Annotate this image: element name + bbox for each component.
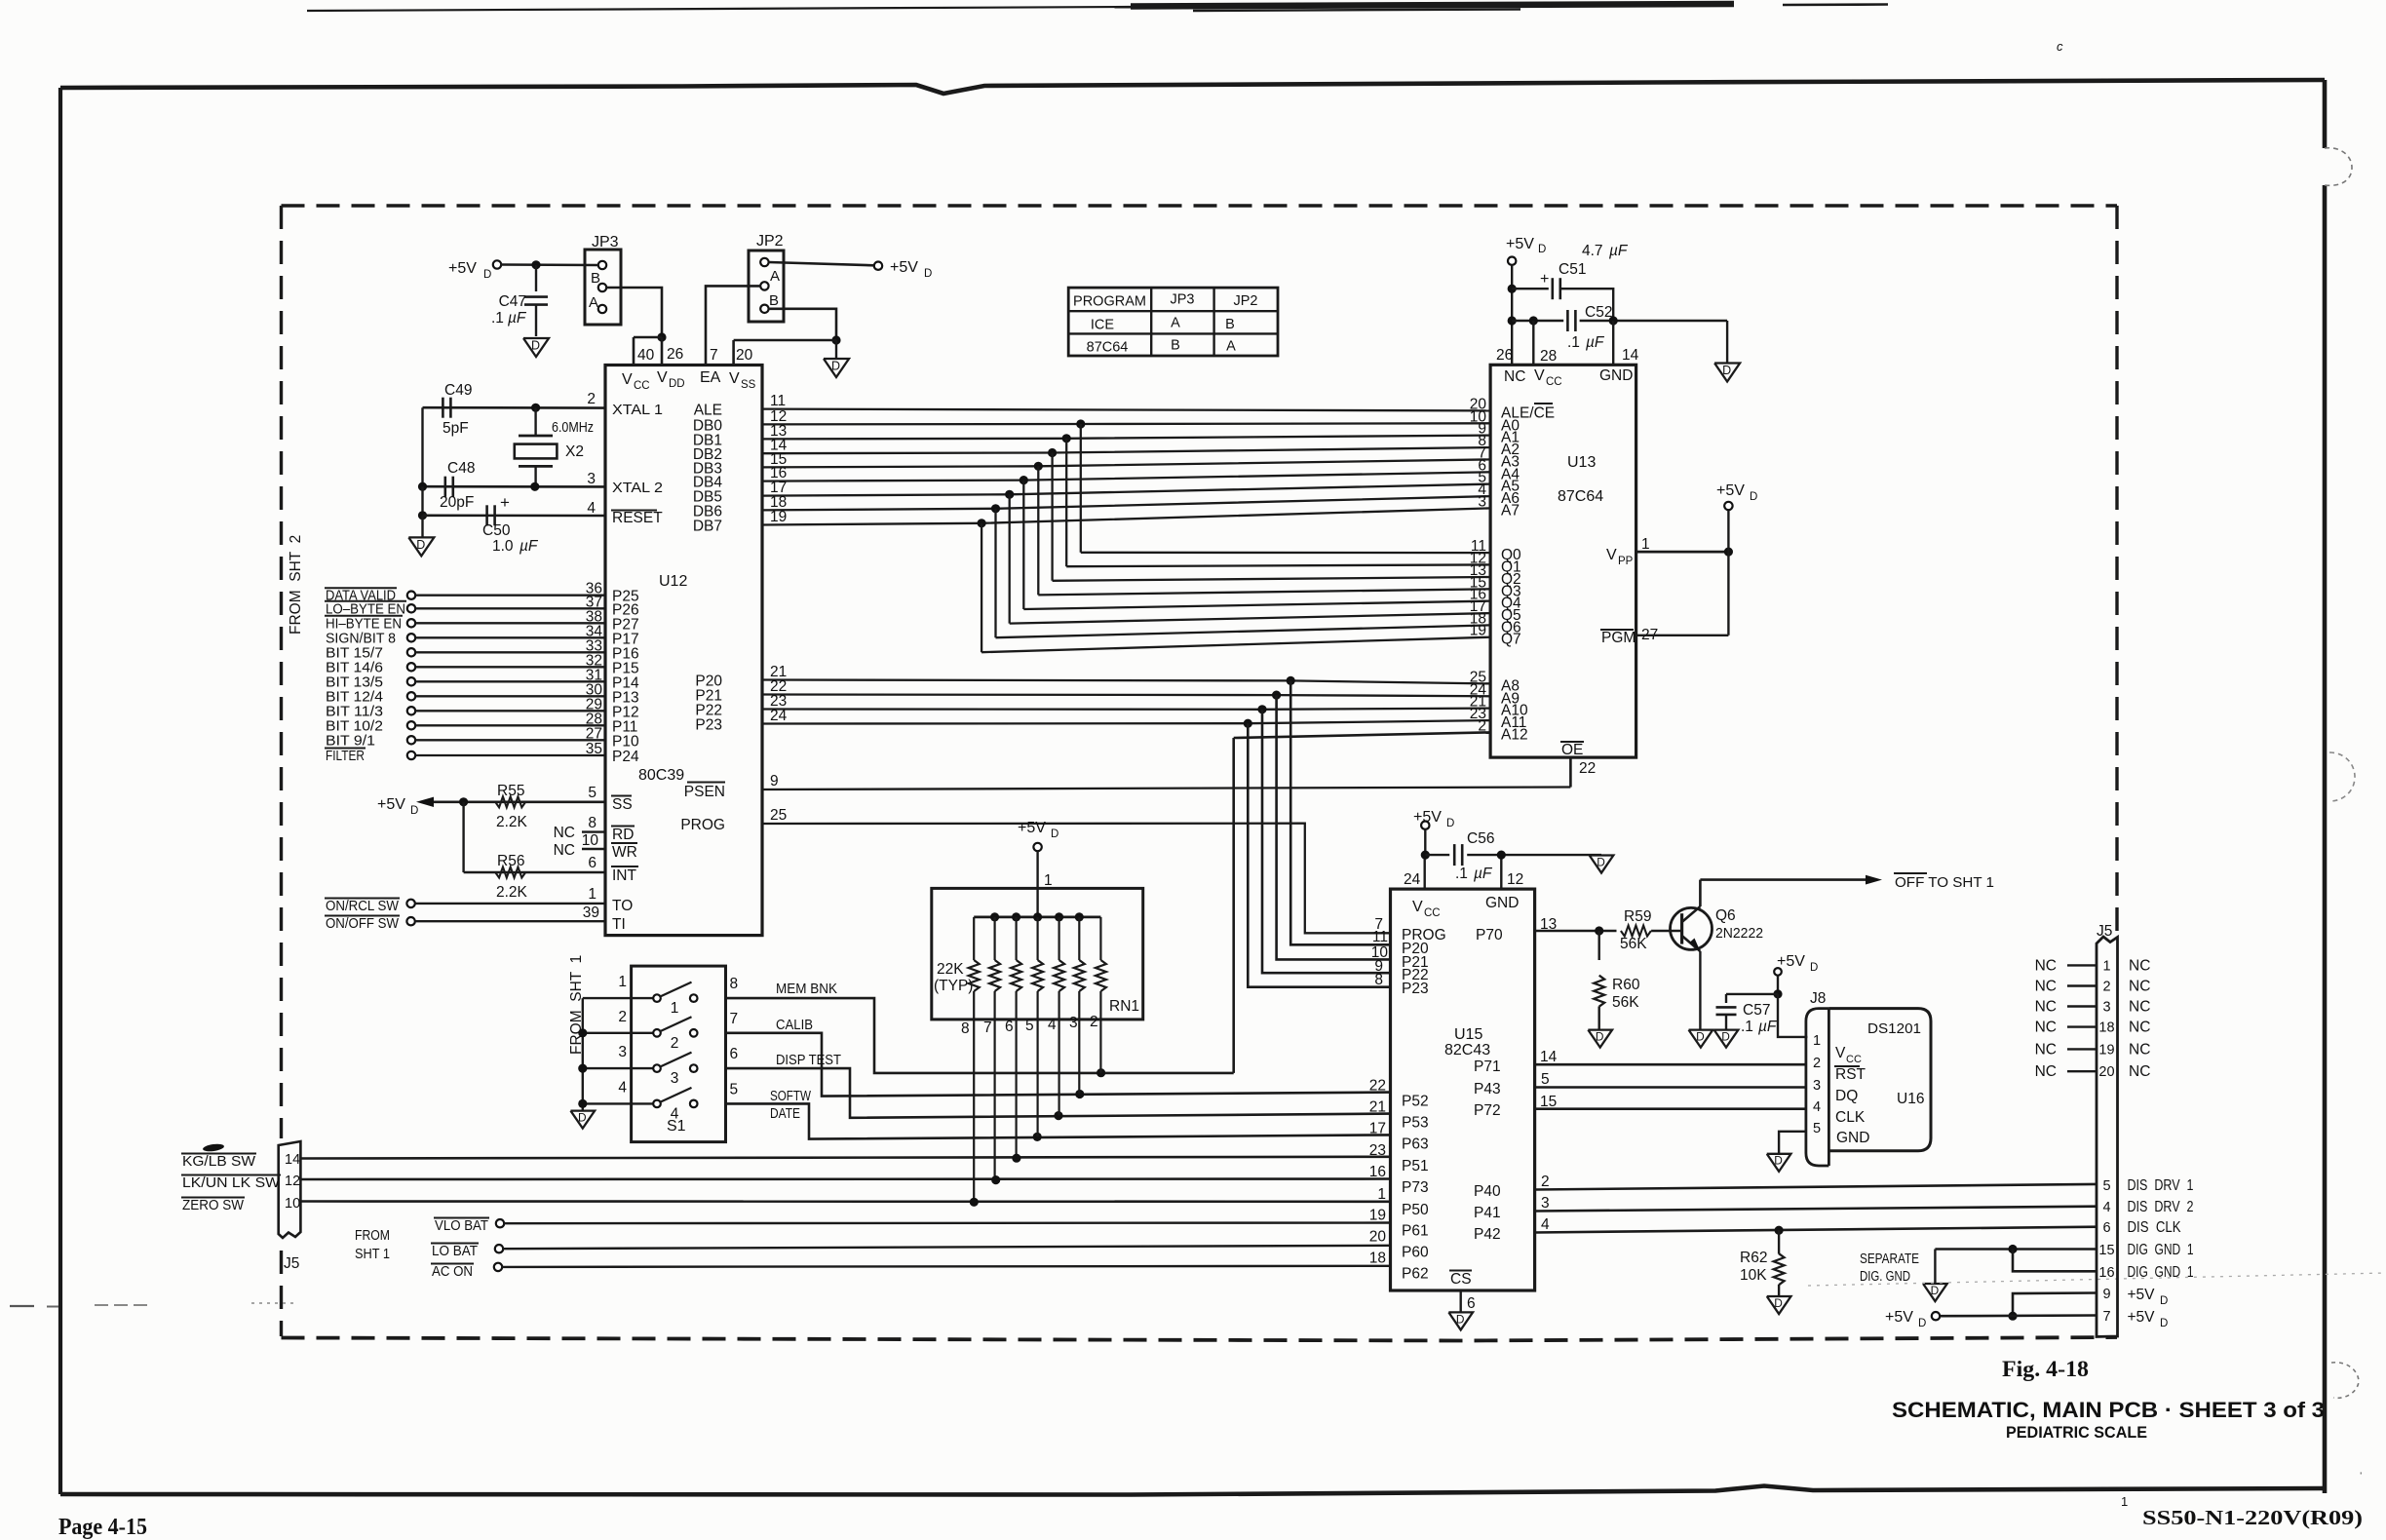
svg-text:P50: P50 [1402, 1202, 1429, 1218]
svg-text:MEM BNK: MEM BNK [776, 981, 837, 997]
svg-text:V: V [657, 369, 668, 386]
svg-text:LK/UN LK SW: LK/UN LK SW [182, 1174, 281, 1191]
svg-text:FROM SHT 2: FROM SHT 2 [288, 535, 304, 635]
svg-text:RD: RD [612, 827, 634, 843]
svg-text:ICE: ICE [1091, 318, 1115, 333]
svg-text:D: D [2160, 1295, 2168, 1307]
svg-text:J8: J8 [1810, 990, 1826, 1007]
svg-text:2.2K: 2.2K [496, 814, 528, 830]
svg-text:3: 3 [618, 1044, 627, 1060]
svg-text:XTAL 1: XTAL 1 [612, 402, 663, 418]
svg-text:D: D [1446, 818, 1454, 829]
svg-text:P71: P71 [1474, 1059, 1501, 1075]
svg-text:+: + [500, 493, 510, 512]
svg-text:ON/RCL SW: ON/RCL SW [326, 898, 400, 914]
svg-text:NC: NC [2035, 1041, 2057, 1058]
svg-text:D: D [2160, 1318, 2168, 1329]
svg-text:3: 3 [671, 1070, 679, 1087]
svg-text:FROM: FROM [355, 1227, 390, 1244]
svg-text:4: 4 [671, 1105, 679, 1122]
svg-text:P24: P24 [612, 749, 639, 765]
svg-text:7: 7 [730, 1011, 739, 1027]
svg-text:20: 20 [2098, 1064, 2114, 1080]
svg-text:D: D [1696, 1030, 1705, 1044]
svg-text:DATE: DATE [770, 1105, 800, 1122]
svg-text:6.0MHz: 6.0MHz [552, 419, 594, 436]
svg-text:NC: NC [2129, 1020, 2150, 1036]
svg-text:1: 1 [588, 886, 596, 903]
svg-text:J5: J5 [284, 1255, 299, 1272]
svg-text:C47: C47 [499, 293, 526, 310]
svg-text:DQ: DQ [1835, 1088, 1858, 1104]
svg-text:DB7: DB7 [693, 519, 722, 535]
svg-text:DISP TEST: DISP TEST [776, 1052, 841, 1068]
svg-text:11: 11 [1372, 929, 1388, 945]
svg-text:15: 15 [2098, 1243, 2114, 1258]
svg-text:7: 7 [710, 347, 718, 364]
svg-text:ZERO SW: ZERO SW [182, 1197, 245, 1213]
svg-text:NC: NC [2035, 999, 2057, 1016]
svg-text:4: 4 [1048, 1017, 1057, 1033]
svg-text:D: D [410, 805, 418, 817]
svg-text:C49: C49 [444, 382, 472, 399]
svg-text:PROG: PROG [680, 817, 725, 833]
svg-text:OE: OE [1561, 742, 1583, 758]
svg-text:Q6: Q6 [1715, 907, 1736, 924]
svg-text:RST: RST [1835, 1066, 1866, 1083]
svg-text:1: 1 [671, 1000, 679, 1017]
svg-text:DIG. GND: DIG. GND [1860, 1268, 1910, 1285]
svg-text:µF: µF [1474, 866, 1493, 882]
svg-text:NC: NC [1504, 368, 1525, 385]
svg-text:+5V: +5V [377, 796, 405, 813]
svg-text:NC: NC [2035, 1063, 2057, 1080]
svg-text:DS1201: DS1201 [1867, 1020, 1921, 1037]
svg-text:SS: SS [741, 379, 756, 391]
svg-text:V: V [1534, 367, 1545, 384]
svg-text:80C39: 80C39 [638, 767, 684, 784]
svg-text:A: A [1171, 316, 1180, 331]
svg-text:3: 3 [1541, 1195, 1550, 1212]
svg-text:D: D [531, 339, 540, 353]
svg-text:D: D [1750, 491, 1757, 503]
svg-text:14: 14 [1540, 1049, 1558, 1065]
svg-text:DIS DRV 1: DIS DRV 1 [2128, 1177, 2194, 1194]
svg-text:+5V: +5V [1777, 953, 1805, 970]
svg-text:µF: µF [508, 310, 527, 327]
svg-text:22: 22 [1579, 760, 1596, 777]
svg-text:10: 10 [582, 832, 599, 849]
svg-text:NC: NC [2129, 957, 2150, 974]
svg-text:RESET: RESET [612, 510, 663, 526]
svg-text:C48: C48 [447, 460, 475, 477]
svg-text:TI: TI [612, 916, 626, 933]
svg-text:BIT 9/1: BIT 9/1 [326, 732, 375, 749]
svg-text:D: D [1721, 1030, 1730, 1044]
svg-text:EA: EA [700, 369, 721, 386]
svg-text:PROGRAM: PROGRAM [1073, 294, 1146, 310]
svg-text:D: D [1774, 1154, 1783, 1168]
svg-text:+5V: +5V [1716, 482, 1745, 499]
svg-text:P73: P73 [1402, 1179, 1429, 1196]
svg-text:CC: CC [1846, 1054, 1862, 1065]
svg-text:3: 3 [1069, 1015, 1078, 1031]
svg-text:6: 6 [1005, 1019, 1014, 1035]
svg-text:2: 2 [1813, 1056, 1821, 1071]
svg-text:CALIB: CALIB [776, 1017, 813, 1033]
svg-text:Fig. 4-18: Fig. 4-18 [2002, 1357, 2089, 1381]
svg-text:4: 4 [1541, 1216, 1550, 1233]
svg-text:R56: R56 [497, 853, 524, 869]
svg-text:8: 8 [961, 1020, 970, 1037]
svg-text:3: 3 [1813, 1078, 1821, 1094]
svg-text:V: V [729, 370, 740, 387]
svg-text:8: 8 [730, 976, 739, 992]
svg-text:(TYP): (TYP) [934, 978, 973, 994]
svg-text:9: 9 [770, 773, 779, 789]
svg-text:18: 18 [2098, 1020, 2114, 1036]
svg-text:19: 19 [1369, 1208, 1386, 1224]
svg-text:c: c [2057, 39, 2063, 54]
svg-text:2N2222: 2N2222 [1715, 925, 1763, 942]
svg-text:X2: X2 [565, 443, 584, 460]
svg-text:A7: A7 [1501, 502, 1520, 519]
svg-text:D: D [1538, 244, 1546, 255]
svg-text:16: 16 [1369, 1164, 1386, 1180]
svg-text:1: 1 [1813, 1033, 1821, 1049]
svg-text:A: A [589, 294, 598, 311]
svg-text:D: D [1597, 855, 1605, 868]
svg-text:D: D [416, 538, 425, 552]
svg-text:KG/LB SW: KG/LB SW [182, 1153, 256, 1170]
svg-text:7: 7 [2102, 1309, 2110, 1325]
svg-text:D: D [924, 268, 932, 280]
svg-text:P63: P63 [1402, 1136, 1429, 1152]
svg-text:P41: P41 [1474, 1205, 1501, 1221]
svg-text:U13: U13 [1567, 454, 1596, 471]
svg-text:µF: µF [1758, 1019, 1778, 1035]
svg-text:5: 5 [1025, 1018, 1034, 1034]
svg-text:CC: CC [634, 380, 650, 392]
svg-text:5: 5 [588, 785, 596, 801]
svg-text:87C64: 87C64 [1558, 488, 1603, 505]
svg-text:V: V [1835, 1045, 1846, 1061]
svg-text:NC: NC [554, 842, 575, 859]
svg-text:SEPARATE: SEPARATE [1860, 1251, 1919, 1267]
svg-text:NC: NC [2035, 979, 2057, 995]
svg-text:DIG GND 1: DIG GND 1 [2128, 1242, 2194, 1258]
svg-text:.1: .1 [1455, 866, 1472, 882]
svg-text:7: 7 [983, 1020, 992, 1036]
svg-text:21: 21 [1369, 1099, 1386, 1116]
svg-text:2: 2 [587, 391, 596, 407]
svg-text:22: 22 [1369, 1077, 1386, 1094]
svg-text:D: D [1456, 1312, 1465, 1326]
svg-text:µF: µF [1586, 334, 1605, 351]
svg-text:20: 20 [736, 347, 753, 364]
svg-text:3: 3 [2102, 1000, 2110, 1016]
svg-text:P61: P61 [1402, 1223, 1429, 1240]
svg-text:6: 6 [2102, 1220, 2110, 1236]
svg-text:2: 2 [1478, 717, 1486, 734]
svg-text:PSEN: PSEN [684, 784, 725, 800]
svg-text:2: 2 [618, 1009, 627, 1025]
svg-text:SS50-N1-220V(R09): SS50-N1-220V(R09) [2142, 1506, 2363, 1529]
svg-text:P43: P43 [1474, 1081, 1501, 1097]
svg-text:1: 1 [2121, 1494, 2128, 1509]
svg-text:NC: NC [2035, 957, 2057, 974]
svg-text:R55: R55 [497, 783, 524, 799]
svg-text:B: B [1225, 317, 1235, 332]
svg-text:DIG GND 1: DIG GND 1 [2128, 1264, 2194, 1281]
svg-text:.1: .1 [491, 310, 504, 327]
svg-text:RN1: RN1 [1109, 998, 1139, 1015]
svg-text:C51: C51 [1559, 261, 1586, 278]
svg-text:82C43: 82C43 [1444, 1042, 1490, 1059]
svg-text:SS: SS [612, 796, 633, 813]
svg-text:22K: 22K [937, 961, 964, 978]
svg-text:C57: C57 [1743, 1002, 1770, 1019]
svg-text:+5V: +5V [448, 260, 477, 277]
svg-text:P62: P62 [1402, 1265, 1429, 1282]
svg-text:INT: INT [612, 867, 637, 884]
svg-text:C52: C52 [1585, 304, 1612, 321]
svg-text:P60: P60 [1402, 1245, 1429, 1261]
svg-text:4: 4 [587, 500, 596, 517]
svg-text:P70: P70 [1476, 927, 1503, 943]
svg-text:2: 2 [1541, 1174, 1550, 1190]
svg-text:P51: P51 [1402, 1158, 1429, 1174]
svg-text:56K: 56K [1620, 936, 1647, 952]
svg-text:NC: NC [2129, 999, 2150, 1016]
svg-text:17: 17 [1369, 1120, 1386, 1136]
svg-text:39: 39 [583, 905, 599, 921]
svg-text:C50: C50 [482, 522, 511, 539]
svg-text:20pF: 20pF [440, 494, 474, 511]
svg-text:4.7: 4.7 [1582, 243, 1607, 259]
svg-text:6: 6 [1467, 1295, 1476, 1312]
svg-text:A: A [770, 268, 780, 285]
svg-text:JP3: JP3 [592, 234, 619, 250]
svg-text:ˈ: ˈ [2359, 1470, 2363, 1484]
svg-text:ON/OFF SW: ON/OFF SW [326, 915, 400, 932]
svg-text:5: 5 [2102, 1178, 2110, 1194]
svg-text:P40: P40 [1474, 1183, 1501, 1200]
svg-text:+5V: +5V [1885, 1309, 1913, 1326]
svg-text:26: 26 [1496, 347, 1513, 364]
svg-text:24: 24 [1404, 871, 1421, 888]
svg-text:4: 4 [2102, 1200, 2110, 1215]
svg-text:56K: 56K [1612, 994, 1639, 1011]
svg-text:11: 11 [770, 393, 786, 409]
svg-text:NC: NC [2035, 1020, 2057, 1036]
svg-text:5: 5 [1541, 1071, 1550, 1088]
svg-text:1: 1 [1377, 1186, 1386, 1203]
svg-text:DD: DD [669, 378, 685, 390]
svg-text:OFF TO SHT 1: OFF TO SHT 1 [1895, 874, 1994, 891]
svg-text:1: 1 [1044, 872, 1053, 889]
svg-text:D: D [483, 269, 491, 281]
svg-text:+5V: +5V [890, 259, 918, 276]
svg-text:2: 2 [1090, 1014, 1098, 1030]
svg-text:P23: P23 [1402, 981, 1429, 997]
svg-text:CLK: CLK [1835, 1109, 1866, 1126]
svg-text:D: D [1931, 1284, 1940, 1297]
svg-text:VLO BAT: VLO BAT [435, 1217, 488, 1234]
svg-text:D: D [831, 360, 840, 373]
svg-text:SOFTW: SOFTW [770, 1088, 812, 1104]
svg-text:SCHEMATIC, MAIN PCB · SHEET 3: SCHEMATIC, MAIN PCB · SHEET 3 of 3 [1892, 1398, 2325, 1422]
svg-text:D: D [1722, 364, 1731, 377]
svg-text:1: 1 [1641, 536, 1650, 553]
svg-text:JP2: JP2 [1234, 293, 1258, 309]
svg-text:V: V [1412, 899, 1423, 915]
svg-text:1: 1 [2102, 958, 2110, 974]
svg-text:9: 9 [2102, 1287, 2110, 1302]
svg-text:.1: .1 [1741, 1019, 1757, 1035]
svg-text:4: 4 [1813, 1099, 1821, 1115]
svg-text:P42: P42 [1474, 1226, 1501, 1243]
svg-text:U12: U12 [659, 573, 687, 590]
svg-text:P23: P23 [695, 717, 722, 734]
svg-text:3: 3 [1478, 493, 1486, 510]
svg-text:XTAL 2: XTAL 2 [612, 480, 663, 496]
svg-text:4: 4 [618, 1079, 627, 1096]
svg-text:6: 6 [730, 1046, 739, 1062]
svg-text:R60: R60 [1612, 977, 1640, 993]
svg-text:3: 3 [587, 471, 596, 487]
svg-text:Q7: Q7 [1501, 632, 1521, 648]
svg-text:CC: CC [1424, 907, 1441, 919]
svg-text:B: B [591, 270, 600, 287]
svg-text:+: + [1540, 271, 1549, 288]
svg-text:2: 2 [671, 1035, 679, 1052]
svg-text:25: 25 [770, 807, 787, 824]
svg-text:14: 14 [285, 1152, 300, 1168]
svg-text:A12: A12 [1501, 726, 1528, 743]
svg-text:µF: µF [520, 538, 539, 555]
svg-text:5pF: 5pF [443, 420, 469, 437]
svg-text:FILTER: FILTER [326, 748, 365, 764]
svg-text:+5V: +5V [1506, 236, 1534, 252]
svg-text:U15: U15 [1454, 1026, 1482, 1043]
svg-text:D: D [578, 1111, 587, 1125]
svg-text:GND: GND [1599, 367, 1633, 384]
svg-text:+5V: +5V [1018, 820, 1046, 836]
svg-text:19: 19 [770, 509, 787, 525]
svg-text:P53: P53 [1402, 1115, 1429, 1132]
svg-text:Page 4-15: Page 4-15 [58, 1515, 147, 1540]
svg-text:DIS DRV 2: DIS DRV 2 [2128, 1199, 2194, 1215]
svg-text:V: V [622, 371, 633, 388]
svg-text:B: B [769, 292, 779, 309]
svg-text:8: 8 [1374, 972, 1383, 988]
svg-text:14: 14 [1622, 347, 1639, 364]
svg-text:A: A [1226, 339, 1236, 355]
svg-text:+5V: +5V [2128, 1287, 2156, 1303]
svg-text:AC ON: AC ON [432, 1263, 473, 1280]
svg-text:P72: P72 [1474, 1102, 1501, 1119]
svg-text:J5: J5 [2097, 923, 2112, 940]
svg-text:1: 1 [618, 974, 627, 990]
svg-text:NC: NC [2129, 1063, 2150, 1080]
svg-text:LO BAT: LO BAT [432, 1243, 478, 1259]
svg-text:87C64: 87C64 [1087, 340, 1129, 356]
svg-text:.1: .1 [1567, 334, 1584, 351]
svg-text:P52: P52 [1402, 1093, 1429, 1109]
svg-text:D: D [1810, 962, 1818, 974]
svg-text:40: 40 [637, 347, 655, 364]
svg-text:ALE: ALE [694, 403, 722, 419]
svg-text:C56: C56 [1467, 830, 1494, 847]
svg-text:D: D [1774, 1296, 1783, 1310]
svg-text:GND: GND [1836, 1130, 1869, 1146]
svg-text:V: V [1606, 547, 1617, 563]
svg-text:U16: U16 [1897, 1091, 1924, 1107]
svg-text:TO: TO [612, 898, 633, 914]
svg-text:28: 28 [1540, 348, 1557, 365]
svg-text:JP2: JP2 [756, 233, 784, 250]
svg-text:NC: NC [2129, 979, 2150, 995]
svg-text:B: B [1171, 338, 1180, 354]
svg-text:NC: NC [554, 825, 575, 841]
svg-text:16: 16 [2098, 1265, 2114, 1281]
svg-text:JP3: JP3 [1171, 292, 1195, 308]
svg-text:µF: µF [1609, 243, 1629, 259]
svg-text:PGM: PGM [1601, 630, 1636, 646]
svg-text:D: D [1596, 1030, 1604, 1044]
svg-text:2.2K: 2.2K [496, 884, 528, 901]
svg-text:WR: WR [612, 844, 637, 861]
svg-text:12: 12 [285, 1174, 300, 1189]
svg-text:10: 10 [285, 1196, 300, 1212]
svg-text:P10: P10 [612, 733, 639, 750]
svg-text:8: 8 [588, 815, 596, 831]
svg-text:18: 18 [1369, 1250, 1386, 1266]
svg-text:CC: CC [1546, 376, 1562, 388]
svg-text:GND: GND [1485, 895, 1519, 911]
svg-text:R62: R62 [1740, 1250, 1767, 1266]
svg-text:R59: R59 [1624, 908, 1651, 925]
svg-text:35: 35 [586, 741, 602, 757]
svg-text:24: 24 [770, 708, 788, 724]
svg-text:2: 2 [2102, 980, 2110, 995]
svg-text:5: 5 [730, 1081, 739, 1097]
svg-text:D: D [1051, 828, 1058, 840]
svg-text:19: 19 [1470, 623, 1486, 639]
svg-text:5: 5 [1813, 1121, 1821, 1136]
svg-text:19: 19 [2098, 1042, 2114, 1058]
svg-text:SHT 1: SHT 1 [355, 1246, 390, 1262]
svg-text:1.0: 1.0 [492, 538, 518, 555]
svg-text:10K: 10K [1740, 1267, 1767, 1284]
svg-text:6: 6 [588, 855, 596, 871]
svg-text:23: 23 [1369, 1142, 1386, 1159]
svg-text:PP: PP [1618, 556, 1634, 567]
svg-text:NC: NC [2129, 1041, 2150, 1058]
svg-text:D: D [1918, 1318, 1926, 1329]
svg-text:12: 12 [1507, 871, 1523, 888]
svg-text:CS: CS [1450, 1271, 1472, 1288]
svg-text:27: 27 [586, 725, 602, 742]
svg-text:26: 26 [667, 346, 683, 363]
svg-text:20: 20 [1369, 1229, 1387, 1246]
svg-text:+5V: +5V [2128, 1309, 2156, 1326]
svg-text:DIS CLK: DIS CLK [2128, 1219, 2182, 1236]
svg-text:PEDIATRIC SCALE: PEDIATRIC SCALE [2006, 1424, 2147, 1442]
